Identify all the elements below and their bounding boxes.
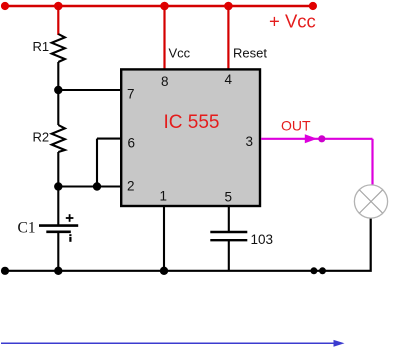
svg-text:Vcc: Vcc xyxy=(169,46,191,61)
IC 555 U1 body xyxy=(121,69,260,206)
arrowhead on OUT wire xyxy=(305,134,317,143)
node: junction C1/ground xyxy=(54,267,62,275)
wire: red drop from rail to R1 xyxy=(57,6,59,35)
wire: node to R2 top xyxy=(57,90,59,125)
lamp L1 cross xyxy=(359,190,382,213)
capacitor C2 top plate (103) xyxy=(210,231,247,233)
wire: +Vcc top power rail xyxy=(2,5,313,7)
node: ground rail left end dot xyxy=(1,267,9,275)
resistor R1 xyxy=(52,34,65,62)
wire: OUT drop to lamp xyxy=(371,139,373,186)
svg-text:5: 5 xyxy=(225,190,233,205)
svg-text:R1: R1 xyxy=(33,39,50,54)
polarity mark + of C1 xyxy=(66,214,74,222)
svg-text:1: 1 xyxy=(160,189,168,204)
node: rail left end dot xyxy=(1,2,9,10)
wire: C2 to ground rail xyxy=(228,240,230,271)
wire: pin 1 to ground rail xyxy=(163,206,165,271)
node: rail junction above Vcc pin 8 xyxy=(160,2,169,11)
wire: R1 bottom to node xyxy=(57,62,59,90)
wire: C1 to ground rail xyxy=(57,232,59,271)
node: terminal dot pair right xyxy=(319,267,326,274)
capacitor C2 bottom plate (103) xyxy=(210,239,247,241)
node: rail junction above R1 xyxy=(54,2,63,11)
resistor R2 xyxy=(52,125,65,152)
svg-text:R2: R2 xyxy=(33,130,50,145)
svg-text:OUT: OUT xyxy=(281,118,311,134)
capacitor C1 top plate xyxy=(39,224,78,227)
node: rail right end dot xyxy=(309,2,317,10)
node: terminal dot pair left xyxy=(310,267,317,274)
wire: ground bottom rail xyxy=(2,218,371,271)
svg-text:2: 2 xyxy=(127,179,135,194)
capacitor C1 bottom plate xyxy=(46,231,71,234)
node: junction pin6 elbow on pin2 wire xyxy=(93,182,101,190)
wire: node down to C1 xyxy=(57,187,59,226)
svg-text:3: 3 xyxy=(246,134,254,149)
node: junction pin1/ground xyxy=(160,267,168,275)
svg-text:8: 8 xyxy=(161,74,169,89)
wire: R2 bottom to node xyxy=(57,152,59,187)
lamp L1 circle xyxy=(354,185,387,218)
svg-text:103: 103 xyxy=(251,232,274,247)
svg-text:Reset: Reset xyxy=(233,46,267,61)
node: junction R2/C1/pin2 xyxy=(54,182,62,190)
wire: red drop from rail to pin 8 (Vcc) xyxy=(163,6,165,69)
wire: node to pin 2 xyxy=(58,185,121,187)
node: magenta dot on OUT wire xyxy=(318,135,325,142)
wire: pin 5 to C2 xyxy=(228,206,230,232)
svg-text:7: 7 xyxy=(127,87,135,102)
svg-text:+ Vcc: + Vcc xyxy=(269,11,316,32)
wire: pin 6 stub xyxy=(97,138,121,140)
wire: pin 6 elbow down to pin 2 wire xyxy=(96,139,98,187)
svg-text:IC 555: IC 555 xyxy=(164,112,220,133)
node: junction R1/R2/pin7 xyxy=(54,86,62,94)
wire: node to pin 7 xyxy=(58,89,121,91)
arrowhead of blue arrow xyxy=(334,340,345,347)
svg-text:C1: C1 xyxy=(18,220,36,237)
svg-text:4: 4 xyxy=(225,72,233,87)
wire: OUT pin 3 magenta xyxy=(261,138,373,140)
svg-text:6: 6 xyxy=(128,136,136,151)
wire: red drop from rail to pin 4 (Reset) xyxy=(227,6,229,69)
wire: blue timing arrow at bottom xyxy=(1,342,336,344)
node: rail junction above Reset pin 4 xyxy=(224,2,233,11)
polarity mark i below C1 xyxy=(69,234,71,242)
